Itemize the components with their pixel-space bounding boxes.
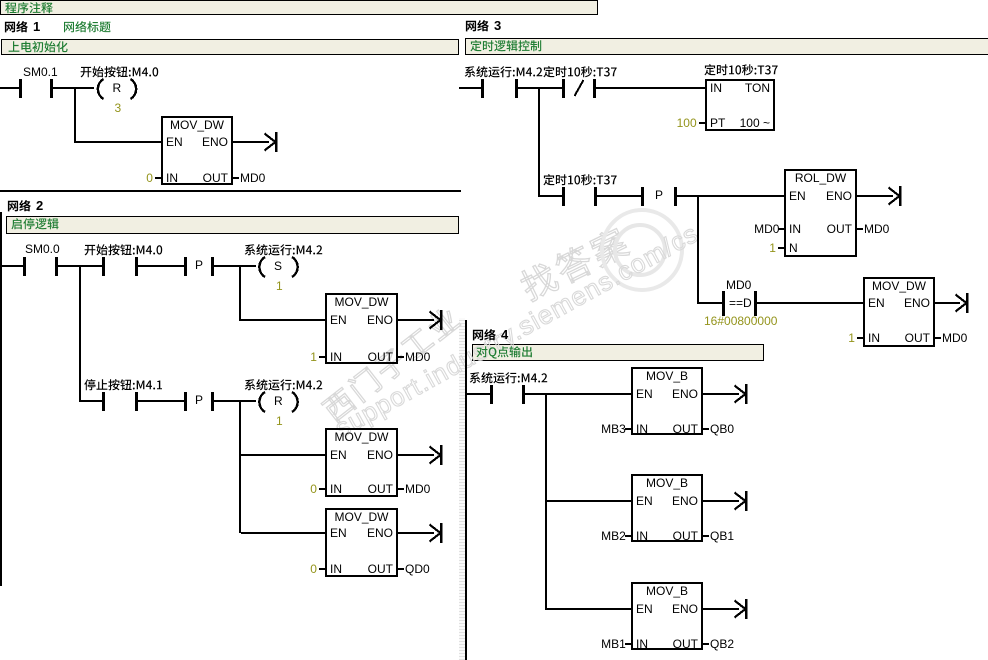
network 3 comment bar — [465, 38, 988, 55]
box MOV_B U8 pin OUT — [631, 530, 698, 543]
net4 branch wire — [545, 393, 547, 610]
box MOV_DW U4 pin EN — [330, 527, 347, 540]
network separator line — [0, 190, 461, 192]
box MOV_B U7 OUT stub — [703, 428, 709, 430]
watermark swirl — [560, 195, 720, 315]
box MOV_B U7 pin OUT — [631, 423, 698, 436]
contact start button M4.0 label — [84, 244, 164, 259]
box MOV_DW U3 OUT stub — [398, 488, 404, 490]
box MOV_B U9 OUT stub — [703, 643, 709, 645]
network 3 comment bar text — [470, 40, 544, 55]
box TON T37 PT stub — [699, 122, 705, 124]
net4 left rail — [465, 320, 467, 660]
arrow net4 box2 — [703, 491, 748, 511]
contact compare ==D — [722, 291, 757, 316]
compare constant — [704, 315, 777, 328]
box MOV_DW U2 title — [325, 296, 398, 309]
box MOV_DW U4 IN value — [310, 563, 317, 576]
box MOV_DW U6 IN stub — [857, 337, 863, 339]
box MOV_DW U4 pin OUT — [325, 563, 393, 576]
box TON T37 — [706, 80, 774, 130]
box MOV_DW U3 pin IN — [330, 483, 342, 496]
coil R net1 — [98, 79, 136, 99]
net2 rung1 wire a — [2, 265, 23, 267]
contact P edge net3 letter — [655, 189, 663, 202]
net4 EN2 wire — [547, 500, 631, 502]
box MOV_DW U3 — [326, 429, 397, 496]
box MOV_B U9 pin EN — [636, 603, 653, 616]
box MOV_DW U2 OUT stub — [398, 356, 404, 358]
box TON T37 pin PT — [710, 117, 725, 130]
box MOV_DW U3 OUT operand — [405, 483, 430, 496]
net3 junction wire — [697, 195, 699, 304]
box MOV_DW U1 IN stub — [155, 177, 161, 179]
box MOV_DW U6 IN value — [848, 332, 855, 345]
net3 rung3 wire a — [699, 302, 722, 304]
box MOV_DW U3 IN value — [310, 483, 317, 496]
compare MD0 operand — [726, 279, 751, 292]
contact system-run M4.2 net3 — [481, 79, 518, 98]
network 2 label num — [36, 199, 43, 212]
box MOV_B U7 pin IN — [636, 423, 648, 436]
box MOV_B U9 IN operand — [601, 638, 626, 651]
net2 left rail — [0, 212, 2, 586]
box MOV_DW U3 title — [325, 431, 398, 444]
box MOV_B U9 pin OUT — [631, 638, 698, 651]
box MOV_DW U6 OUT stub — [935, 337, 941, 339]
box MOV_B U8 pin IN — [636, 530, 648, 543]
box MOV_B U8 IN stub — [625, 535, 631, 537]
box MOV_B U8 IN operand — [601, 530, 626, 543]
coil R system-run M4.2 value — [276, 415, 283, 428]
net2 branch2 wire — [239, 265, 241, 321]
net3 rung1 wire b — [518, 87, 562, 89]
box MOV_B U8 OUT stub — [703, 535, 709, 537]
contact stop button M4.1 — [102, 392, 138, 411]
box MOV_B U8 pin EN — [636, 495, 653, 508]
box MOV_B U8 pin ENO — [631, 495, 698, 508]
box MOV_DW U1 pin EN — [166, 136, 183, 149]
box MOV_DW U6 pin IN — [868, 332, 880, 345]
network 4 label — [472, 329, 498, 344]
watermark find-answers cjk — [511, 210, 646, 316]
box MOV_B U7 pin ENO — [631, 388, 698, 401]
net2 rung1 wire d — [214, 265, 256, 267]
contact SM0.0 — [23, 257, 58, 276]
net4 rung wire a — [467, 393, 490, 395]
contact NC timer T37 — [562, 79, 596, 98]
watermark siemens industry cjk — [309, 287, 476, 434]
network 4 label num — [501, 328, 508, 341]
box MOV_DW U3 pin ENO — [325, 449, 393, 462]
box TON T37 pin TON — [705, 82, 770, 95]
network 2 comment bar — [6, 216, 459, 234]
coil R system-run M4.2 — [259, 392, 297, 412]
box MOV_DW U6 pin OUT — [863, 332, 930, 345]
contact SM0.1 label — [23, 66, 58, 79]
box MOV_DW U6 — [864, 278, 934, 346]
contact system-run M4.2 net4 — [490, 385, 525, 404]
box MOV_B U7 — [632, 368, 702, 434]
box MOV_DW U3 pin OUT — [325, 483, 393, 496]
box ROL_DW U5 IN operand — [754, 223, 779, 236]
box MOV_DW U1 IN value — [146, 172, 153, 185]
box MOV_B U7 IN stub — [625, 428, 631, 430]
contact timer T37 rung2 — [562, 187, 597, 206]
network 1 label — [4, 21, 30, 36]
contact P edge net3 — [641, 187, 677, 206]
network 1 label num — [33, 20, 40, 33]
box MOV_DW U4 OUT operand — [405, 563, 430, 576]
box ROL_DW U5 pin ENO — [784, 190, 852, 203]
net4 EN3 wire — [547, 608, 631, 610]
box MOV_B U9 pin ENO — [631, 603, 698, 616]
net3 rung1 wire a — [459, 87, 481, 89]
net3 rung2 wire b — [597, 195, 641, 197]
network 1 comment bar text — [8, 41, 70, 56]
contact stop button M4.1 label — [84, 379, 164, 394]
box TON T37 PT value — [677, 117, 697, 130]
box ROL_DW U5 — [785, 170, 856, 256]
box MOV_DW U4 OUT stub — [398, 568, 404, 570]
contact SM0.0 label — [25, 243, 60, 256]
compare ==D text — [729, 297, 752, 310]
network 3 label num — [494, 19, 501, 32]
net2 rung2 wire a — [81, 400, 102, 402]
net1 EN wire — [76, 141, 161, 143]
box MOV_B U7 OUT operand — [710, 423, 734, 436]
box MOV_DW U1 — [162, 117, 232, 184]
box MOV_B U7 pin EN — [636, 388, 653, 401]
box TON T37 pin IN — [710, 82, 722, 95]
arrow net1 — [233, 132, 278, 152]
box MOV_DW U6 OUT operand — [942, 332, 967, 345]
box MOV_DW U4 pin ENO — [325, 527, 393, 540]
box ROL_DW U5 OUT operand — [864, 223, 889, 236]
arrow net3 MOV — [935, 293, 969, 313]
contact timer T37 rung2 label — [543, 174, 619, 189]
arrow net2 box2 — [398, 445, 443, 465]
pane divider dotted strip — [459, 318, 465, 660]
net4 rung wire b — [525, 393, 631, 395]
contact NC timer T37 label — [543, 66, 619, 81]
box MOV_B U8 OUT operand — [710, 530, 734, 543]
net1 rung wire b — [53, 87, 94, 89]
box MOV_B U8 — [632, 475, 702, 541]
box MOV_DW U2 pin OUT — [325, 351, 393, 364]
net3 rung2 wire c — [677, 195, 784, 197]
contact system-run M4.2 net4 label — [469, 372, 549, 387]
program comment bar text — [5, 2, 55, 17]
network 1 comment bar — [1, 39, 459, 55]
arrow net2 box3 — [398, 523, 443, 543]
box ROL_DW U5 pin EN — [789, 190, 806, 203]
net3 branch wire — [538, 87, 540, 197]
contact P edge net2b — [184, 392, 214, 411]
box MOV_B U7 title — [631, 370, 703, 383]
coil S system-run M4.2 value — [276, 280, 283, 293]
box ROL_DW U5 pin N — [789, 242, 798, 255]
coil S system-run M4.2 letter — [274, 260, 282, 273]
coil S system-run M4.2 — [259, 257, 297, 277]
coil R net1 letter — [113, 82, 122, 95]
box MOV_B U7 IN operand — [601, 423, 626, 436]
watermark url text — [330, 218, 704, 443]
box ROL_DW U5 pin OUT — [784, 223, 852, 236]
box MOV_DW U1 pin ENO — [161, 136, 228, 149]
box MOV_DW U2 IN value — [310, 351, 317, 364]
net2 rung1 wire c — [138, 265, 184, 267]
box MOV_B U9 OUT operand — [710, 638, 734, 651]
contact SM0.1 — [19, 79, 53, 98]
box MOV_DW U1 pin OUT — [161, 172, 228, 185]
box MOV_DW U4 pin IN — [330, 563, 342, 576]
box MOV_DW U2 — [326, 294, 397, 363]
box MOV_DW U1 title — [161, 119, 233, 132]
box MOV_B U9 IN stub — [625, 643, 631, 645]
net2 rung2 wire b — [138, 400, 184, 402]
program comment bar — [0, 0, 598, 15]
box MOV_DW U3 pin EN — [330, 449, 347, 462]
net2 EN2 wire — [241, 454, 325, 456]
net3 rung1 wire c — [596, 87, 705, 89]
arrow net3 ROL — [857, 186, 902, 206]
box MOV_DW U4 IN stub — [319, 568, 325, 570]
box MOV_DW U2 pin EN — [330, 314, 347, 327]
contact P edge net2b letter — [195, 394, 203, 407]
arrow net4 box1 — [703, 384, 748, 404]
coil R system-run M4.2 label — [244, 379, 324, 394]
box ROL_DW U5 N value — [769, 242, 776, 255]
box MOV_DW U1 OUT operand — [240, 172, 265, 185]
network 4 comment bar text — [476, 346, 535, 361]
box MOV_B U8 title — [631, 477, 703, 490]
coil S system-run M4.2 label — [244, 244, 324, 259]
contact start button M4.0 — [102, 257, 138, 276]
box ROL_DW U5 IN stub — [778, 228, 784, 230]
box ROL_DW U5 N stub — [778, 247, 784, 249]
net3 rung2 wire a — [540, 195, 562, 197]
coil R net1 value — [115, 102, 122, 115]
box TON T37 pin 100 ~ — [705, 117, 770, 130]
box MOV_DW U1 OUT stub — [233, 177, 239, 179]
box MOV_DW U6 title — [863, 280, 935, 293]
net1 rung wire a — [0, 87, 19, 89]
box ROL_DW U5 title — [784, 172, 857, 185]
net2 branch1 wire — [79, 265, 81, 402]
net2 rung1 wire b — [58, 265, 102, 267]
box MOV_DW U1 pin IN — [166, 172, 178, 185]
network 1 title — [63, 21, 113, 36]
box MOV_DW U2 pin ENO — [325, 314, 393, 327]
box MOV_B U9 title — [631, 585, 703, 598]
coil R net1 label — [80, 66, 160, 81]
box MOV_DW U2 IN stub — [319, 356, 325, 358]
coil R system-run M4.2 letter — [274, 395, 283, 408]
net2 EN1 wire — [241, 319, 325, 321]
net2 branch3 wire — [239, 400, 241, 533]
box MOV_DW U4 title — [325, 511, 398, 524]
net2 EN3 wire — [241, 532, 325, 534]
contact P edge net2a — [184, 257, 214, 276]
net1 branch wire — [74, 87, 76, 143]
arrow net2 box1 — [398, 310, 443, 330]
box MOV_DW U4 — [326, 509, 397, 576]
box MOV_DW U2 OUT operand — [405, 351, 430, 364]
box MOV_DW U2 pin IN — [330, 351, 342, 364]
arrow net4 box3 — [703, 599, 748, 619]
network 2 comment bar text — [11, 218, 61, 233]
box MOV_DW U3 IN stub — [319, 488, 325, 490]
contact P edge net2a letter — [195, 259, 203, 272]
box MOV_DW U6 pin EN — [868, 297, 885, 310]
net2 rung2 wire c — [214, 400, 256, 402]
timer box label — [704, 64, 780, 79]
net3 rung3 wire b — [757, 302, 863, 304]
network 2 label — [7, 200, 33, 215]
network 4 comment bar — [472, 344, 764, 361]
network 3 label — [465, 20, 491, 35]
box MOV_DW U6 pin ENO — [863, 297, 930, 310]
box MOV_B U9 pin IN — [636, 638, 648, 651]
box ROL_DW U5 pin IN — [789, 223, 801, 236]
contact system-run M4.2 net3 label — [464, 66, 544, 81]
box ROL_DW U5 OUT stub — [857, 228, 863, 230]
box MOV_B U9 — [632, 583, 702, 649]
